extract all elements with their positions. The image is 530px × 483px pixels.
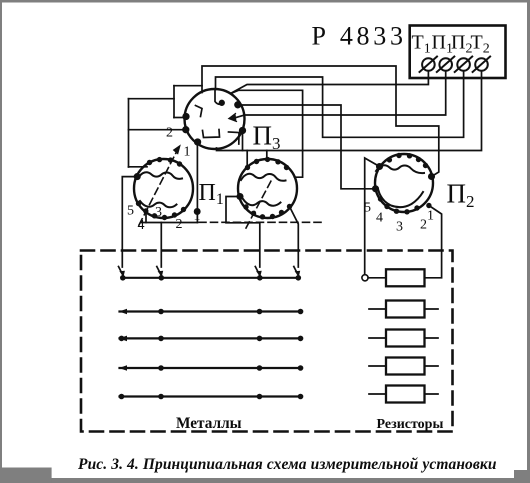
resistor R2 leads <box>369 308 438 310</box>
terminal box outline <box>410 26 506 79</box>
terminal T2 (circle with slash) <box>473 57 491 73</box>
svg-text:5: 5 <box>364 201 371 216</box>
terminal P1 (circle with slash) <box>437 57 455 73</box>
wire: P1 left dot to left drop <box>122 177 137 267</box>
svg-text:3: 3 <box>155 205 162 220</box>
wire net T2: terminal T2 down, long left to below switch P3 <box>217 71 482 151</box>
bus junction dots <box>120 275 301 281</box>
switch section circle-2 rotor circle <box>238 159 297 218</box>
svg-text:2: 2 <box>176 217 183 232</box>
svg-text:2: 2 <box>420 218 427 233</box>
linkage arrowhead near contact 1 of P3 <box>174 146 181 154</box>
switch P3 NE dot <box>235 102 241 108</box>
wire: circle-2 SE dot diagonal to drop 4 <box>290 208 298 268</box>
wire net B: P3 top-left tab over staircase to P2 right dot <box>202 66 439 177</box>
svg-text:П1: П1 <box>432 32 453 57</box>
dashed sample box <box>81 251 453 432</box>
wire: drop 2 from link under P1 <box>160 223 162 268</box>
wire: vertical to circle-2 upper-left <box>246 151 248 168</box>
wire: stub to P1 top-left dot <box>129 166 148 168</box>
window chrome: bottom-left gray block <box>0 468 52 483</box>
svg-text:Т1: Т1 <box>412 32 431 57</box>
wire: circle-2 left-lower dot to drop 3 <box>226 197 260 268</box>
svg-text:П1: П1 <box>199 180 224 208</box>
wire net P1-terminal: terminal P1 down, long left to switch P3 east contact <box>244 71 446 115</box>
window chrome: bottom-right gray block <box>514 470 530 483</box>
window chrome: top gray border <box>0 0 530 3</box>
wire: P3 bottom-left dot down to node 1 of P1 <box>196 143 198 223</box>
circle-2 top rim dots <box>245 157 289 171</box>
mechanical linkage dashed line through P1 with arrow toward P3 <box>139 147 179 225</box>
wire: left branch into C-link <box>129 98 175 100</box>
switch P3 SE inner tab <box>229 132 240 144</box>
wire: C-link bottom to P3 west dot <box>174 117 186 119</box>
switch P1 top rim dots <box>147 157 182 167</box>
switch P1 bottom rim dots <box>136 201 186 220</box>
window chrome: right gray border <box>527 0 530 483</box>
resistor R1 body <box>386 269 425 286</box>
linkage dashed diagonal through circle-2 <box>246 181 271 228</box>
selector bus line <box>122 277 298 279</box>
circle-2 upper wavy contact arc <box>241 174 286 181</box>
plug hook at drop 1 <box>119 267 124 277</box>
svg-text:1: 1 <box>194 209 201 224</box>
switch P3 rotor circle <box>185 89 245 149</box>
switch P1 lower wavy contact arc <box>140 201 177 207</box>
wire: C-link vertical beside P3 <box>173 86 175 118</box>
wire: vertical to circle-2 top <box>266 151 268 160</box>
wire net T1: terminal T1 down, left, diagonal into switch P3 NE tab <box>231 71 429 94</box>
resistor R5 leads <box>369 393 438 395</box>
switch P3 west dot <box>183 114 189 120</box>
svg-text:Т2: Т2 <box>471 32 490 57</box>
plug hook at drop 2 <box>157 267 162 277</box>
switch P2 rotor circle <box>375 154 433 212</box>
wire: horizontal link under P1 <box>142 222 198 224</box>
svg-text:3: 3 <box>396 220 403 235</box>
circle-2 bottom rim dots <box>243 204 292 220</box>
switch P2 lower wavy contact arc <box>378 189 423 207</box>
resistor R5 body <box>386 386 425 403</box>
window chrome: bottom gray strip <box>0 478 530 483</box>
switch P2 upper wavy contact arc <box>376 165 424 173</box>
terminal T1 (circle with slash) <box>420 57 438 73</box>
metal sample row 3 <box>119 365 303 371</box>
resistor R3 leads <box>369 337 438 339</box>
resistor R4 body <box>386 358 425 375</box>
metal sample row 1 <box>119 309 303 315</box>
wire: P2 SE dot diagonal, riser down to resistor R1 right lead <box>425 206 442 278</box>
svg-text:1: 1 <box>184 145 191 160</box>
switch P3 SE dot <box>240 128 246 134</box>
plug hook at drop 3 <box>255 267 260 277</box>
switch P3 east arrow contact <box>235 115 244 118</box>
metal sample row 2 <box>119 336 304 342</box>
switch P3 bottom wiper U <box>203 130 220 138</box>
mechanical linkage dashed horizontal line P1 to P2 <box>199 221 322 223</box>
switch P3 SE dot wire to T2 line <box>242 132 244 151</box>
svg-text:Р 4833: Р 4833 <box>312 22 407 51</box>
svg-text:П3: П3 <box>253 121 281 154</box>
node: open circle feeding resistor R1 <box>362 275 368 281</box>
svg-text:5: 5 <box>127 204 134 219</box>
switch P3 top contact stem <box>215 90 223 105</box>
wire: C-link top to P3 top-left wire <box>174 85 202 87</box>
svg-text:4: 4 <box>376 211 383 226</box>
switch P2 upper-left dot <box>377 164 382 169</box>
circle-2 lower wavy contact arc <box>243 199 281 206</box>
wire: P1 bottom contact short vertical <box>145 214 147 223</box>
switch P3 SW dot <box>183 127 189 133</box>
switch P1 rotor circle <box>134 159 193 218</box>
svg-text:1: 1 <box>427 209 434 224</box>
wire net P2-terminal: terminal P2 down, left, up, left to switch P3 top contact <box>216 71 464 138</box>
resistor R1 left lead <box>368 277 386 279</box>
switch P1 left dot <box>135 174 140 179</box>
wire: P3 SW dot to left vertical <box>129 129 186 131</box>
wire: P2 upper-left dot diagonal and long drop to resistor node <box>365 158 380 275</box>
switch P2 left dot <box>373 186 378 191</box>
svg-text:2: 2 <box>166 126 173 141</box>
resistor R2 body <box>386 301 425 318</box>
wire: P3 NE contact to circle-2 NE dot (staircase via x=302.6) <box>233 90 303 177</box>
terminal P2 (circle with slash) <box>455 57 473 73</box>
svg-text:Рис. 3. 4. Принципиальная схем: Рис. 3. 4. Принципиальная схема измерите… <box>78 456 497 473</box>
switch P2 right dot <box>429 174 434 179</box>
switch P2 top rim dots <box>387 153 429 168</box>
resistor R4 leads <box>369 365 438 367</box>
svg-text:Металлы: Металлы <box>176 415 242 432</box>
svg-text:П2: П2 <box>447 179 475 212</box>
svg-text:Резисторы: Резисторы <box>377 417 444 432</box>
switch P3 east arrowhead <box>229 114 237 122</box>
circle-2 left dot <box>237 194 242 199</box>
switch P2 bottom rim dots <box>378 196 432 214</box>
plug hook at drop 4 <box>294 267 299 277</box>
switch P3 top contact dot <box>220 101 225 106</box>
wire: left vertical from P1 top-left up <box>128 99 130 167</box>
switch P3 upper-left tab <box>196 106 203 117</box>
svg-text:4: 4 <box>138 218 145 233</box>
wire net W5: P3 NE dot right, down, to P2 left dot <box>239 105 376 189</box>
metal sample row 4 <box>119 394 304 400</box>
switch P1 upper wavy contact arc <box>138 172 182 179</box>
node 1 junction dot under P1 <box>195 209 200 214</box>
switch P3 bottom-left dot <box>195 139 201 145</box>
resistor R3 body <box>386 330 425 347</box>
svg-text:П2: П2 <box>451 32 472 57</box>
window chrome: left gray border <box>0 0 2 470</box>
